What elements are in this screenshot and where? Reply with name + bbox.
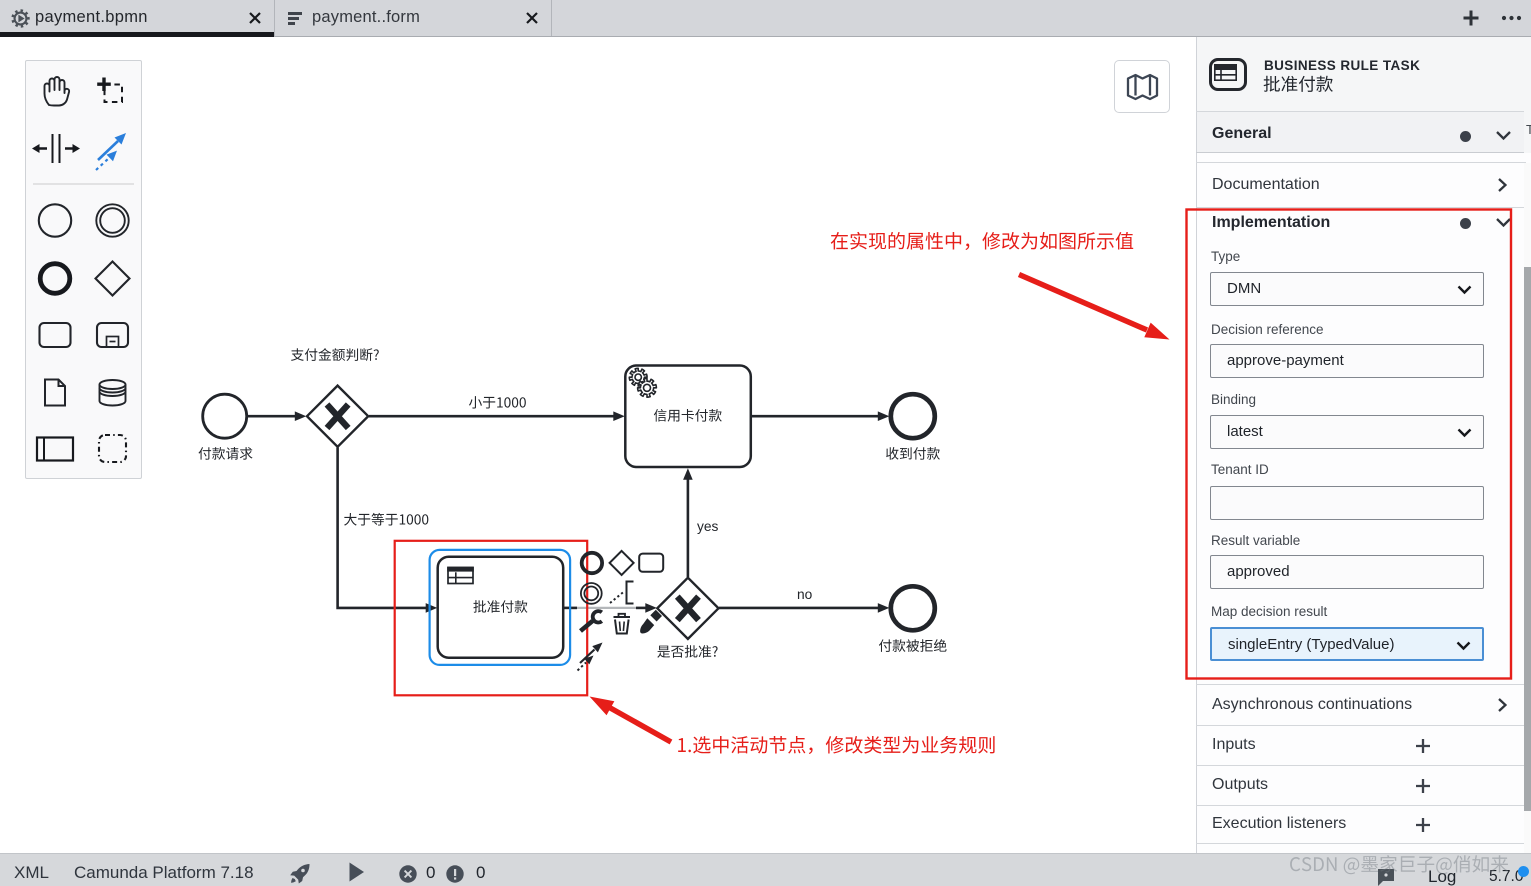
wire: gateway1 to task1, label 小于1000 [369,415,615,418]
red rect around 批准付款 [395,541,588,696]
wire: start to gateway1 [248,415,297,418]
create intermediate event [96,204,128,236]
palette [25,60,142,479]
inactive tab payment..form [274,0,552,36]
hand tool [45,77,70,106]
create subprocess [97,323,128,347]
minimap toggle button [1114,60,1170,113]
update blue dot [1518,866,1529,877]
deploy rocket icon [289,863,311,884]
outputs group [1212,776,1268,794]
properties panel [1196,37,1531,853]
create group [99,435,126,462]
panel header: business rule task [1209,58,1247,91]
documentation group [1212,176,1320,194]
red arrow to properties [1019,275,1147,331]
implementation group [1212,214,1330,232]
context pad: connect tool [580,650,595,664]
active tab payment.bpmn [0,0,274,37]
create task [40,323,71,347]
start event 付款请求 [203,394,247,438]
create data store [100,380,126,406]
end event 付款被拒绝 [891,586,935,630]
status bar [0,853,1531,886]
task2 批准付款 (business rule task, selected) [438,557,564,658]
log toggle [1428,867,1456,886]
panel scrollbar [1524,163,1531,853]
gateway2 是否批准? (exclusive) [657,578,718,639]
service task gear icon [629,368,647,386]
create participant [37,438,73,461]
create data object [45,380,65,406]
error count [399,865,417,883]
panel header element name 批准付款 [1264,76,1333,92]
wire: gateway2 up to task1, label yes [687,472,690,577]
separator [33,183,134,185]
context pad: copy style (brush) [640,618,654,633]
red rect around implementation [1187,210,1512,679]
csdn watermark [1290,855,1508,874]
wire: task1 to end1 [752,415,880,418]
lasso tool [97,78,122,103]
task1 信用卡付款 (service task) [625,366,751,468]
context pad: append gateway [610,551,634,575]
context pad: append task [639,554,663,572]
space tool [32,134,80,163]
wire: gateway1 down to task2, label 大于等于1000 [338,448,427,608]
red arrow to task [605,705,671,742]
inputs group [1212,736,1256,754]
tab bar [0,0,1531,37]
wire: task2 to gateway2 [564,607,578,610]
context pad: append intermediate event [581,583,602,604]
business rule table icon [448,568,473,584]
chat bubble icon [1377,868,1396,886]
context pad: change type (wrench) [581,621,593,631]
new tab plus [1463,10,1479,26]
context pad: append end event [582,553,602,573]
asynchronous continuations group [1212,696,1412,714]
selection frame (blue) [430,550,570,665]
context pad: text annotation [627,582,634,604]
create start event [39,204,71,236]
red annotation text 1 [831,232,1133,250]
play icon [348,862,365,882]
wire: gateway2 to end2, label no [719,607,879,610]
warning count [446,865,464,883]
context pad: delete (trash) [614,616,631,618]
global connect tool (blue) [96,133,126,170]
execution listeners group [1212,815,1346,833]
end event 收到付款 [891,394,935,438]
create gateway [96,262,130,296]
create end event [40,264,70,294]
overflow dots [1499,14,1525,22]
gateway1 支付金额判断? (exclusive) [307,386,368,447]
red annotation text 2 [678,736,994,754]
